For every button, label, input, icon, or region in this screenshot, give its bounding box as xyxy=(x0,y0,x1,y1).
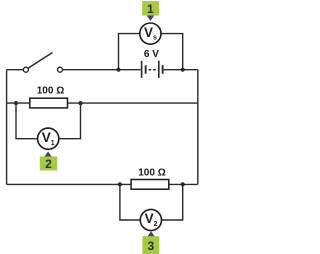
svg-text:3: 3 xyxy=(147,239,154,253)
svg-text:1: 1 xyxy=(51,140,55,147)
svg-text:V: V xyxy=(144,25,153,40)
svg-text:1: 1 xyxy=(147,2,154,16)
svg-text:s: s xyxy=(153,34,157,41)
svg-text:2: 2 xyxy=(154,221,158,228)
svg-text:V: V xyxy=(145,211,154,226)
svg-text:2: 2 xyxy=(45,157,52,171)
svg-text:100 Ω: 100 Ω xyxy=(37,86,64,97)
svg-text:100 Ω: 100 Ω xyxy=(138,167,165,178)
svg-text:6 V: 6 V xyxy=(144,49,159,60)
svg-text:V: V xyxy=(42,130,51,145)
